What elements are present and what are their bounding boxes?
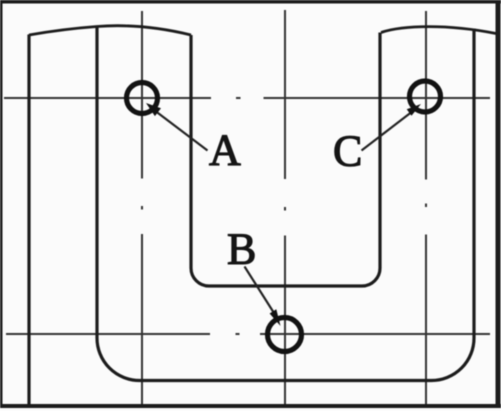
hole circle C [410,81,441,112]
arrowhead A [146,103,161,116]
leader line C [362,113,412,151]
centerline horizontal through A and C [4,97,490,99]
svg-text:B: B [227,225,256,274]
outline inner tub with bottom fillets [97,27,474,381]
arrowhead B [270,309,281,326]
hole circle B [268,318,302,352]
frame border bottom [0,404,501,408]
leader line A [156,112,208,151]
leader line B [245,267,275,314]
arrowhead C [407,104,421,116]
hole circle A [127,83,158,114]
centerline vertical through A [141,11,143,404]
svg-text:A: A [209,126,241,175]
centerline horizontal through B [6,333,490,335]
centerline vertical through C [425,11,427,404]
outline right top arch [381,27,496,34]
outline U slot [191,33,380,287]
outline left outer edge [27,35,30,405]
centerline vertical middle through B [284,10,286,404]
svg-text:C: C [333,127,362,176]
frame border right [496,0,501,408]
frame border top [0,0,501,4]
outline left top arch [29,26,191,35]
frame border left [0,0,3,408]
